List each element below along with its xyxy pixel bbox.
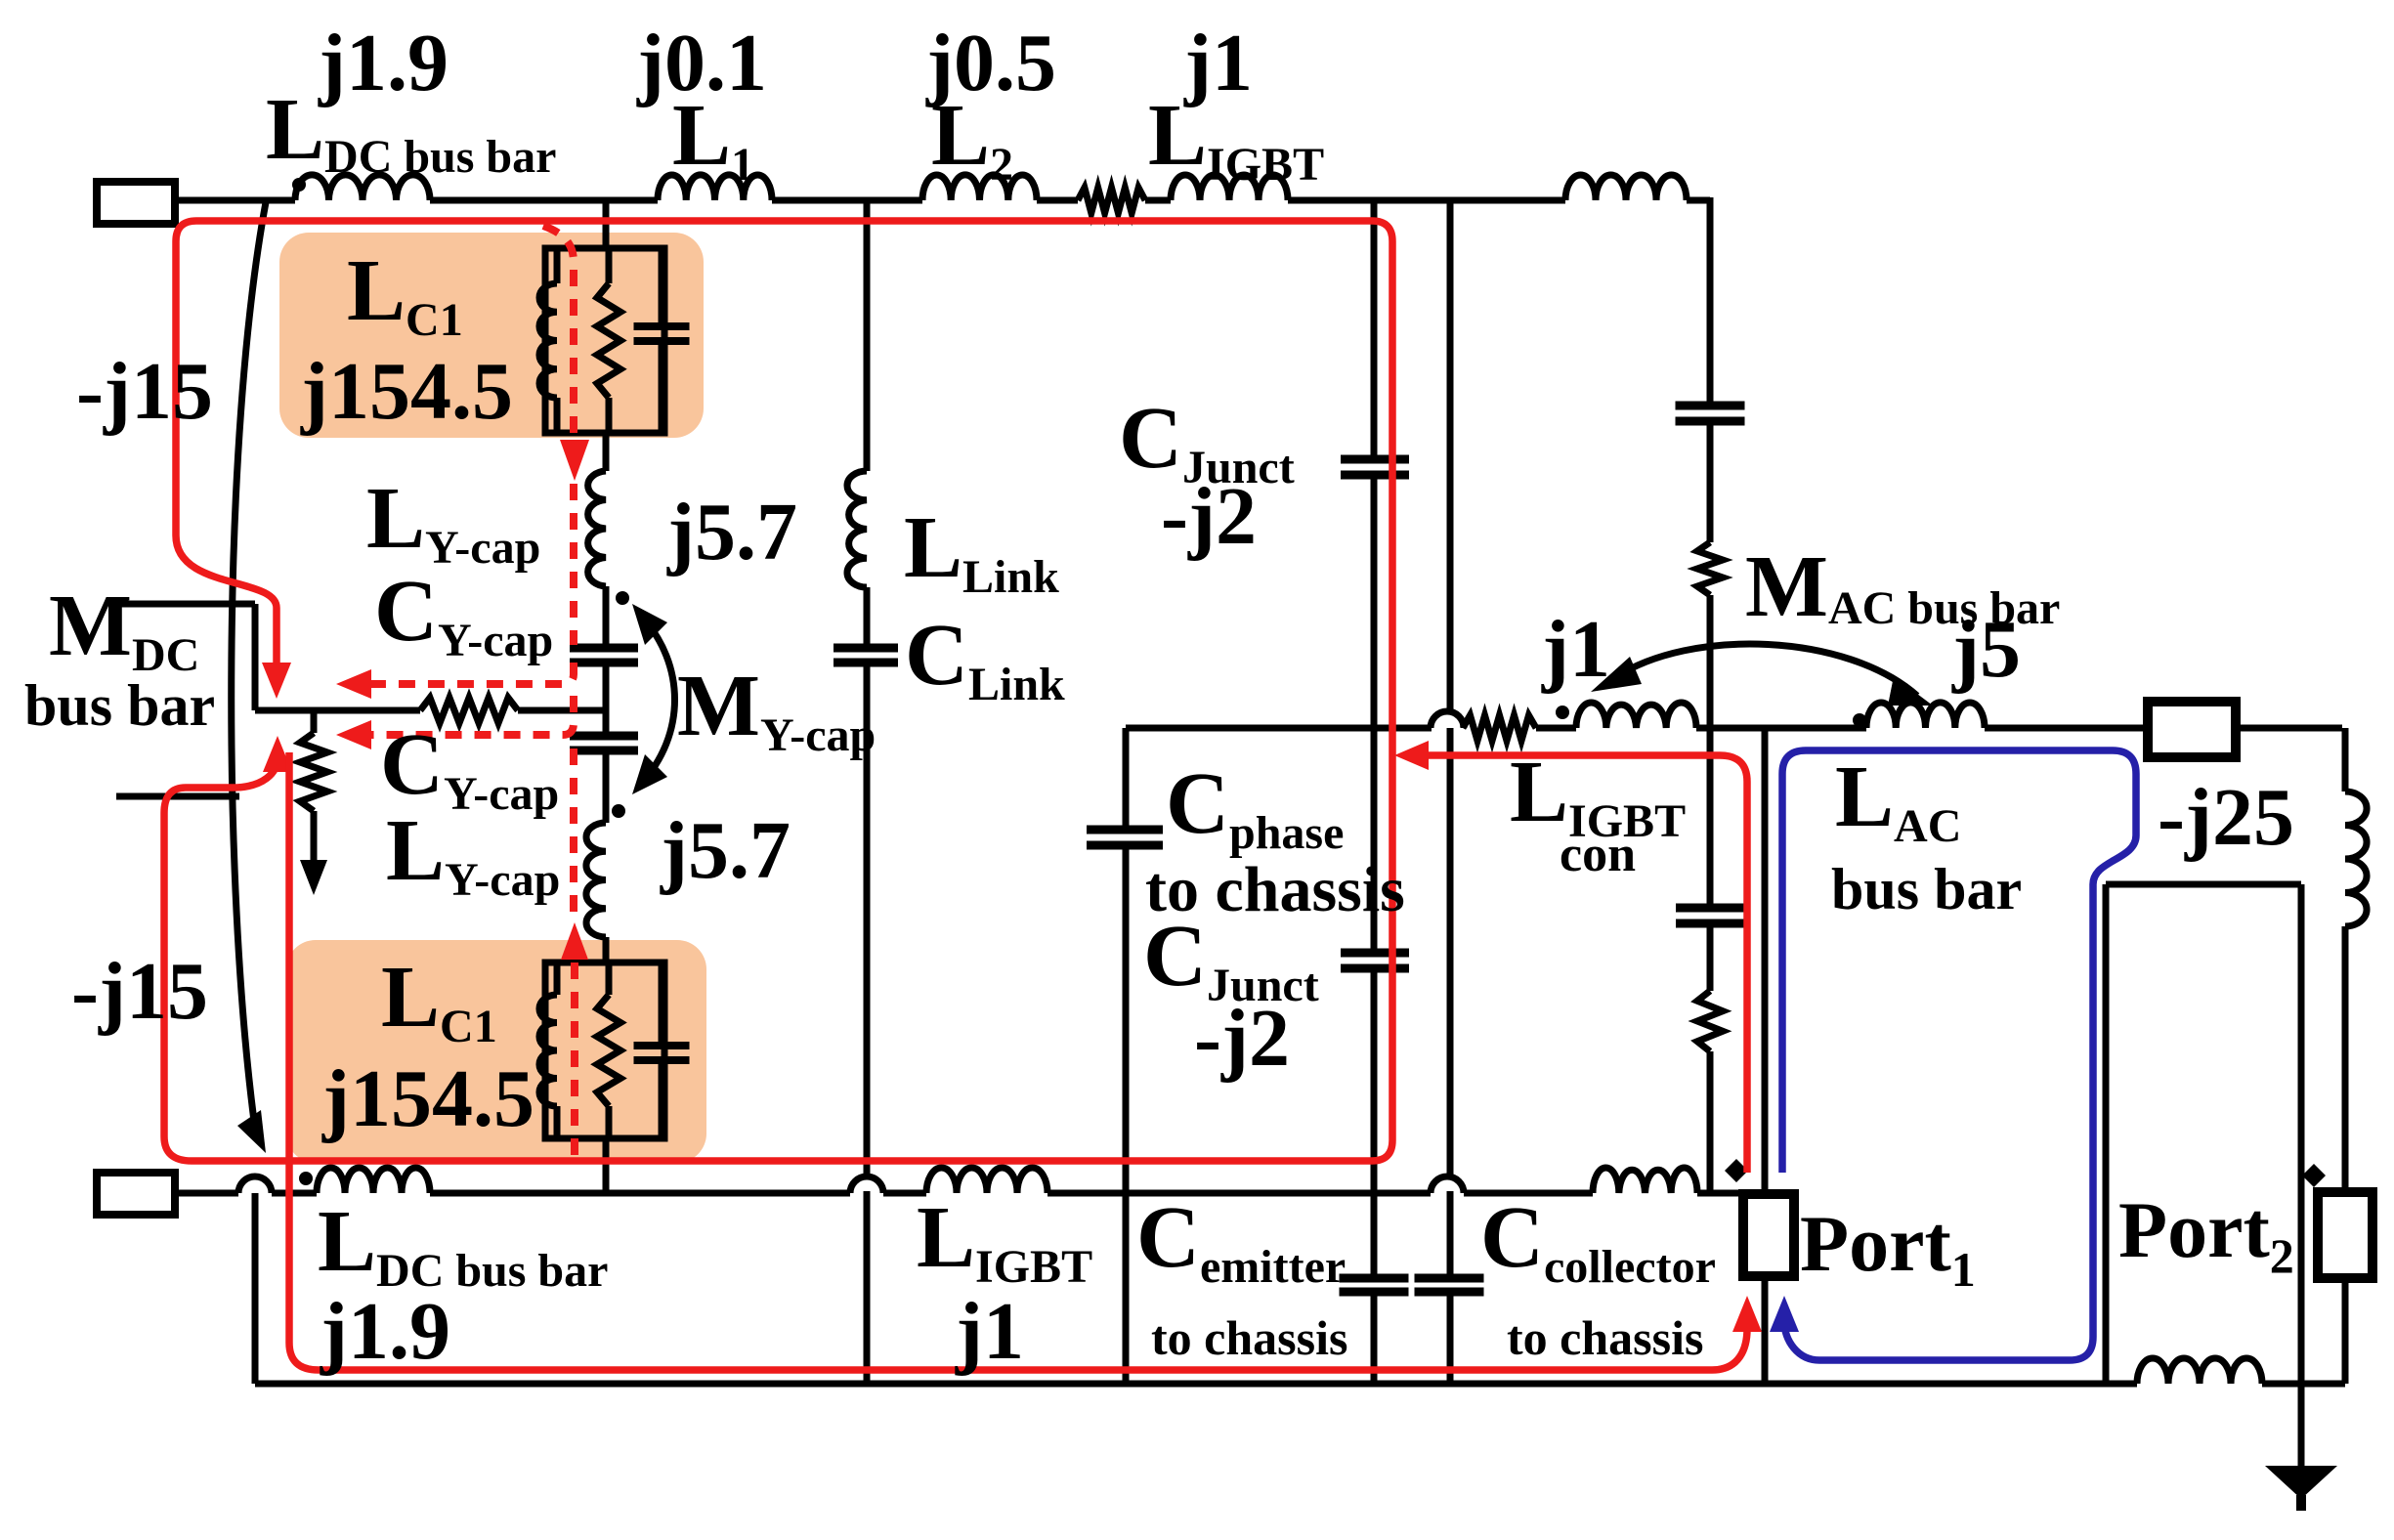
svg-text:j154.5: j154.5 [300,346,513,437]
svg-text:-j15: -j15 [71,946,208,1037]
svg-text:j1.9: j1.9 [320,1286,450,1377]
svg-text:j1.9: j1.9 [318,18,449,108]
svg-text:bus bar: bus bar [24,673,215,738]
svg-text:-j15: -j15 [76,346,213,437]
svg-text:Port2: Port2 [2118,1185,2294,1283]
svg-text:Port1: Port1 [1800,1199,1976,1297]
svg-text:j5.7: j5.7 [666,487,797,577]
svg-text:con: con [1560,827,1636,882]
svg-text:to chassis: to chassis [1151,1310,1347,1365]
svg-text:j1: j1 [955,1286,1024,1377]
svg-text:j5.7: j5.7 [660,805,791,896]
svg-text:-j25: -j25 [2158,772,2294,863]
svg-text:-j2: -j2 [1161,471,1257,562]
svg-text:-j2: -j2 [1194,993,1290,1084]
svg-text:j154.5: j154.5 [321,1053,534,1144]
svg-text:j5: j5 [1951,604,2021,695]
svg-text:j1: j1 [1541,604,1610,695]
svg-text:bus bar: bus bar [1831,857,2022,921]
svg-text:to chassis: to chassis [1507,1310,1703,1365]
